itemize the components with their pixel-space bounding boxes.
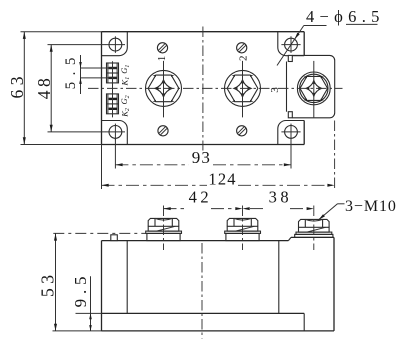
auxiliary screw top 1	[157, 43, 167, 53]
side view body outline	[102, 240, 289, 242]
terminal screw 1	[146, 70, 182, 106]
svg-text:3: 3	[269, 87, 281, 93]
dim 42/38 dimension line	[164, 208, 188, 210]
dim 9.5 extension line	[76, 312, 102, 314]
mounting tab top-left	[102, 32, 128, 56]
side view internal edge left	[126, 241, 128, 314]
callout 3-M10 leader	[319, 204, 338, 220]
side view baseplate top	[102, 312, 305, 314]
dim 63	[23, 32, 25, 145]
gate terminal block G1/K1	[107, 63, 119, 83]
mounting hole top-right	[285, 38, 298, 51]
dim 124	[102, 184, 208, 186]
mounting tab bottom-left	[102, 121, 128, 145]
terminal bolt 2 side view	[227, 218, 258, 226]
svg-text:53: 53	[38, 271, 58, 298]
svg-text:93: 93	[192, 148, 211, 167]
dim 53	[55, 233, 57, 331]
terminal bolt 3 side view	[299, 219, 330, 227]
side view right block top step	[288, 237, 291, 240]
extension box notch bottom	[288, 112, 292, 118]
svg-text:3−M10: 3−M10	[345, 198, 397, 215]
extension box notch top	[288, 55, 292, 61]
svg-text:K2: K2	[119, 108, 131, 118]
top view horizontal centerline	[88, 87, 343, 89]
mounting hole top-left	[109, 38, 122, 51]
dim 48 extension lines	[48, 44, 107, 46]
dim 53 extension lines	[53, 232, 146, 234]
terminal screw 2	[225, 70, 261, 106]
side view gate connector bump	[111, 235, 118, 241]
mounting tab top-right	[278, 32, 304, 56]
gate terminal block G2/K2	[107, 94, 119, 114]
auxiliary screw bottom 1	[158, 126, 168, 136]
dim 93	[115, 164, 189, 166]
terminal bolt 1 side view	[148, 218, 179, 226]
dim 48	[50, 45, 52, 132]
svg-text:G1: G1	[119, 65, 131, 74]
svg-text:42: 42	[189, 188, 213, 207]
svg-text:1: 1	[156, 56, 168, 62]
mounting hole bottom-left	[109, 125, 122, 138]
svg-text:K1: K1	[119, 77, 131, 87]
callout 4-phi6.5 leader	[277, 26, 304, 66]
auxiliary screw top 2	[237, 43, 247, 53]
right terminal extension box	[293, 55, 335, 117]
top view: module body outline	[102, 31, 305, 33]
mounting tab bottom-right	[278, 121, 304, 145]
svg-text:G2: G2	[119, 95, 131, 104]
svg-text:4−ϕ6.5: 4−ϕ6.5	[306, 7, 385, 26]
terminal screw 3	[297, 72, 330, 105]
svg-text:38: 38	[269, 188, 293, 207]
gate block centerline	[112, 61, 114, 117]
side view internal edge right	[278, 241, 280, 314]
mounting hole bottom-right	[285, 125, 298, 138]
svg-text:5.5: 5.5	[63, 51, 79, 89]
dim 5.5 extension lines	[81, 67, 118, 69]
top view vertical centerline	[202, 27, 204, 151]
svg-text:9.5: 9.5	[71, 272, 90, 308]
svg-text:48: 48	[34, 75, 54, 100]
dim 124 extension lines	[101, 145, 103, 190]
side view baseplate step	[303, 313, 305, 331]
auxiliary screw bottom 2	[237, 126, 247, 136]
dim 9.5	[90, 276, 92, 331]
svg-text:124: 124	[208, 170, 236, 189]
dim 93 extension lines	[114, 139, 116, 169]
svg-text:63: 63	[7, 72, 27, 99]
svg-text:2: 2	[237, 56, 249, 62]
dim 63 extension lines	[21, 31, 102, 33]
side view vertical centerline	[201, 243, 203, 339]
dim 5.5	[80, 55, 82, 94]
